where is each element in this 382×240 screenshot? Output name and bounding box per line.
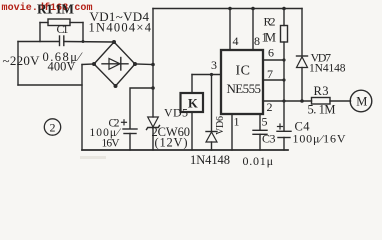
- svg-text:5. 1M: 5. 1M: [308, 103, 336, 117]
- svg-text:NE555: NE555: [227, 81, 262, 96]
- svg-text:2: 2: [267, 100, 273, 114]
- wire: R2/C4 rail lower: [283, 42, 285, 131]
- wire: DC+ rail vertical x153: [152, 9, 154, 118]
- svg-text:1M: 1M: [262, 31, 277, 45]
- wire: AC top lead right segment to bridge top: [64, 41, 114, 44]
- motor M circle: [350, 90, 372, 112]
- figure number circle 2: [44, 119, 60, 135]
- svg-text:1: 1: [234, 115, 240, 129]
- wire: pin 2 horizontal: [263, 100, 312, 102]
- diode VD7 rail: [301, 9, 303, 57]
- relay K top lead from pin3 wire: [191, 75, 193, 94]
- svg-text:R1 1M: R1 1M: [37, 2, 74, 17]
- bridge rectifier VD1~VD4 diamond: [94, 42, 135, 86]
- capacitor C4 bottom lead: [283, 138, 285, 151]
- zener VD5 bar: [147, 126, 160, 130]
- svg-text:2: 2: [50, 121, 56, 135]
- wire: neutral riser vertical: [81, 65, 83, 151]
- wire: pin 7 horizontal: [263, 79, 284, 81]
- resistor R1 body: [48, 19, 70, 26]
- wire: R1 left lead: [40, 22, 48, 24]
- svg-text:1N4148: 1N4148: [190, 153, 230, 167]
- diode VD6 triangle: [206, 132, 217, 142]
- relay K box: [181, 93, 204, 112]
- diode VD6 cathode bar: [206, 131, 217, 133]
- svg-text:M: M: [356, 95, 367, 109]
- wire: pin 5 vertical: [259, 114, 261, 130]
- diode inside bridge triangle: [109, 59, 120, 70]
- resistor R3 body: [312, 98, 331, 105]
- wire: pin 4 vertical: [229, 9, 231, 51]
- svg-text:3: 3: [211, 58, 217, 72]
- diode inside bridge lead: [102, 63, 128, 65]
- svg-text:VD6: VD6: [215, 116, 226, 135]
- wire: pin 1 vertical: [231, 114, 233, 150]
- diode VD7 triangle: [297, 57, 308, 68]
- svg-text:VD5: VD5: [164, 106, 188, 120]
- wire: AC neutral horizontal: [18, 84, 82, 86]
- svg-text:C1: C1: [57, 22, 69, 36]
- svg-text:R2: R2: [264, 15, 276, 29]
- svg-text:400V: 400V: [48, 60, 76, 74]
- svg-text:K: K: [188, 97, 198, 111]
- resistor R1 branch left vertical: [39, 23, 41, 42]
- wire: R1 right lead: [70, 22, 83, 24]
- wire: AC top lead left segment: [18, 41, 59, 43]
- wire: R3 to motor: [330, 100, 351, 102]
- diode VD6 bottom lead: [211, 142, 213, 150]
- svg-text:6: 6: [268, 46, 274, 60]
- diode VD7 cathode bar: [297, 55, 308, 57]
- capacitor C1 plates: [59, 36, 61, 46]
- svg-text:5: 5: [262, 115, 268, 129]
- capacitor C2 plates: [123, 128, 137, 130]
- wire: ground bottom rail: [82, 149, 288, 151]
- svg-text:16V: 16V: [102, 138, 121, 150]
- svg-text:IC: IC: [236, 64, 251, 79]
- zener VD5 triangle: [148, 117, 159, 127]
- capacitor C3 plates: [253, 129, 267, 131]
- plus sign C4: [278, 126, 283, 128]
- op IC NE555 box: [221, 50, 263, 114]
- svg-text:7: 7: [267, 67, 273, 81]
- wire: bridge right stub: [135, 63, 153, 66]
- capacitor C3 bottom lead: [259, 134, 261, 150]
- junction dots: [82, 7, 304, 103]
- capacitor C4 plates: [277, 130, 291, 132]
- wire: stub to bridge left corner: [82, 63, 94, 66]
- diode inside bridge cathode bar: [120, 58, 122, 71]
- plus sign C2: [122, 121, 127, 123]
- wire: left AC vertical: [17, 42, 19, 86]
- wire: pin 8 vertical: [252, 9, 254, 51]
- resistor R2 body: [281, 26, 288, 43]
- wire: pin 6 horizontal: [263, 59, 284, 61]
- wire: R2/C4 rail upper: [283, 9, 285, 26]
- relay K bottom lead: [191, 112, 193, 150]
- svg-text:~220V: ~220V: [3, 53, 41, 68]
- faint smudge bottom left: [80, 156, 106, 159]
- svg-text:4: 4: [233, 34, 239, 48]
- svg-text:R3: R3: [314, 84, 329, 98]
- svg-text:1N4148: 1N4148: [309, 63, 346, 75]
- svg-text:8: 8: [254, 34, 260, 48]
- wire: top supply rail: [153, 8, 302, 10]
- wire: pin 3 horizontal: [192, 74, 221, 76]
- svg-text:0.01μ: 0.01μ: [243, 154, 274, 168]
- capacitor C2 top lead: [130, 88, 153, 129]
- diode VD7 bottom lead: [301, 68, 303, 102]
- svg-text:100μ⁄16V: 100μ⁄16V: [293, 132, 346, 146]
- svg-text:C3: C3: [262, 132, 276, 146]
- resistor R1 branch right vertical: [82, 23, 84, 42]
- diode VD6 top lead: [211, 75, 213, 132]
- capacitor C2 bottom lead: [129, 134, 131, 151]
- svg-text:(12V): (12V): [155, 136, 188, 150]
